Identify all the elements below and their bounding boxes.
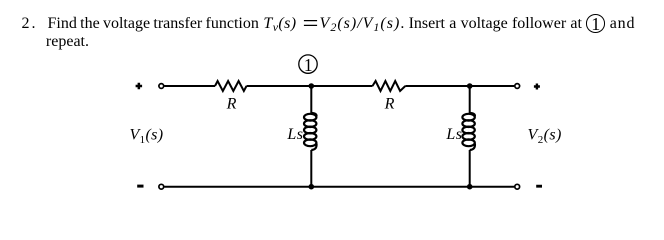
svg-text:R: R <box>384 96 395 113</box>
terminal circle output + <box>515 84 520 89</box>
node 1 label circle <box>299 55 317 73</box>
junction dot right branch bottom <box>467 184 473 190</box>
terminal circle output - <box>515 184 520 189</box>
polarity - input <box>137 185 143 188</box>
svg-text:R: R <box>226 96 237 113</box>
svg-text:Ls: Ls <box>286 126 303 143</box>
wire top rail left segment <box>164 85 215 87</box>
wire vertical right branch bottom <box>469 150 471 187</box>
wire top rail right segment <box>405 85 514 87</box>
junction dot right branch top <box>467 83 473 89</box>
terminal circle input - <box>159 184 164 189</box>
junction dot node 1 bottom <box>309 184 315 190</box>
wire vertical at node 1 bottom <box>310 150 312 187</box>
problem text <box>22 15 664 52</box>
svg-text:1: 1 <box>304 55 313 75</box>
inductor L2 coil <box>462 113 475 150</box>
terminal circle input + <box>159 84 164 89</box>
resistor R1 <box>215 81 247 91</box>
svg-text:V2(s): V2(s) <box>528 127 562 147</box>
wire vertical right branch top <box>469 86 471 113</box>
resistor R2 <box>373 81 406 91</box>
junction dot node 1 top <box>309 83 315 89</box>
wire vertical at node 1 top <box>310 86 312 113</box>
wire top rail middle segment <box>247 85 373 87</box>
polarity + output <box>534 84 540 90</box>
svg-text:V1(s): V1(s) <box>130 127 164 147</box>
wire bottom rail <box>164 186 514 188</box>
inductor L1 coil <box>304 113 317 150</box>
polarity - output <box>536 185 542 188</box>
polarity + input <box>136 83 143 89</box>
svg-text:Ls: Ls <box>445 126 462 143</box>
